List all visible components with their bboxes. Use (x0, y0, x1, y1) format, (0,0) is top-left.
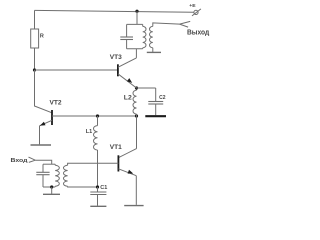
ground input tank (43, 187, 60, 194)
node L1 top (96, 114, 99, 117)
wire tank top rail (127, 23, 143, 25)
inductor L1 (86, 116, 98, 187)
resistor R (31, 10, 44, 70)
capacitor C1 (90, 185, 107, 206)
wire VT2 collector rail (52, 115, 137, 117)
terminal input (11, 157, 52, 164)
capacitor tank (120, 24, 133, 48)
capacitor input tank (36, 164, 49, 187)
node R bottom junction (33, 68, 36, 71)
ground VT1 emitter (124, 205, 143, 207)
svg-text:L2: L2 (124, 94, 132, 101)
svg-text:VT3: VT3 (110, 54, 122, 61)
inductor input transformer primary (55, 164, 59, 187)
transistor VT3 (110, 49, 137, 88)
node L2 bottom / VT1 collector (135, 114, 138, 117)
wire input tank top rail (43, 163, 55, 165)
inductor L2 (124, 88, 137, 116)
capacitor C2 (137, 88, 166, 115)
ground C2 (145, 115, 166, 117)
terminal +E (189, 3, 201, 16)
wire down to VT2 base (35, 70, 53, 113)
inductor transformer primary (143, 24, 146, 48)
svg-text:Вход: Вход (11, 158, 28, 164)
transistor VT2 (40, 100, 62, 145)
wire base line to VT3 (35, 69, 118, 71)
svg-text:R: R (40, 33, 44, 39)
ground transformer secondary (147, 51, 161, 53)
svg-text:C1: C1 (100, 185, 107, 191)
wire tank feed (136, 11, 138, 24)
wire tank bottom rail (127, 48, 143, 50)
wire input tank bottom rail (43, 186, 55, 188)
node VT3 emitter junction (135, 86, 138, 89)
inductor input transformer secondary (63, 163, 118, 187)
wire top supply rail (35, 10, 194, 12)
ground C1 (90, 205, 106, 207)
node C1 L1 junction (96, 185, 99, 188)
svg-text:L1: L1 (86, 129, 92, 135)
svg-text:C2: C2 (159, 95, 166, 101)
node input tank ground junction (50, 185, 53, 188)
svg-text:VT1: VT1 (110, 144, 122, 151)
node junction top rail / tank feed (135, 10, 138, 13)
ground VT2 emitter (31, 144, 52, 146)
svg-text:Выход: Выход (187, 29, 210, 37)
svg-text:+E: +E (189, 3, 196, 9)
terminal output fork (180, 21, 210, 36)
inductor transformer secondary (149, 23, 179, 52)
svg-text:VT2: VT2 (50, 100, 62, 107)
transistor VT1 (110, 116, 137, 205)
